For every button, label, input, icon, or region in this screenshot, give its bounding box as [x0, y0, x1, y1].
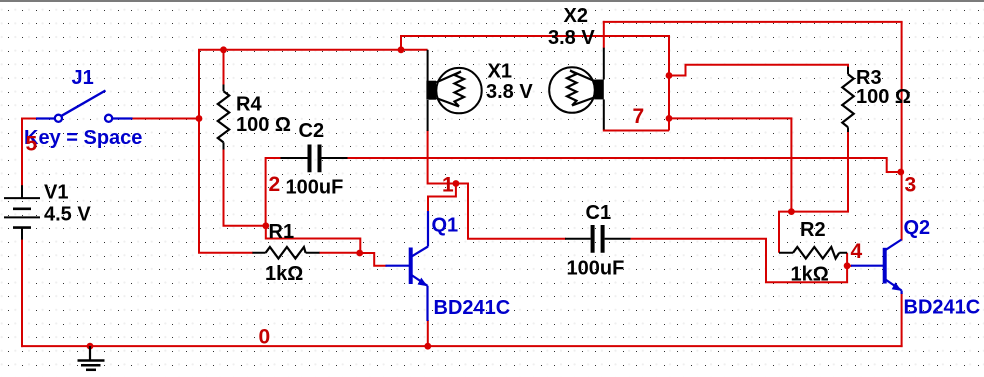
- transistor Q2 bar: [883, 248, 887, 284]
- svg-text:0: 0: [259, 326, 271, 349]
- wire X2 top line to right vertical: [603, 21, 903, 23]
- battery V1 long plate 1: [4, 197, 40, 199]
- svg-text:100uF: 100uF: [567, 258, 625, 280]
- resistor R4 zigzag: [218, 91, 229, 142]
- resistor R3 zigzag: [842, 74, 853, 127]
- junction dot node 2: [262, 222, 269, 229]
- wire C1 right to node4 loop: [631, 239, 848, 282]
- svg-text:7: 7: [633, 105, 645, 128]
- battery V1 top pin stub: [21, 185, 23, 198]
- junction dot node 7 branch: [666, 115, 673, 122]
- lamp X2 bottom pin: [603, 99, 605, 129]
- svg-text:J1: J1: [72, 67, 94, 89]
- wire node2 down-right to Q1 base dot: [266, 225, 361, 254]
- svg-text:X2: X2: [564, 5, 588, 27]
- svg-text:3.8 V: 3.8 V: [486, 81, 533, 103]
- ground symbol stem: [89, 346, 91, 360]
- wire X2 bottom segment: [604, 130, 669, 132]
- resistor R1 pins: [252, 252, 319, 254]
- junction dot node 3: [897, 169, 904, 176]
- wire top rail y=49.8: [198, 49, 428, 51]
- capacitor C2 plates: [310, 145, 320, 173]
- lamp X1 top pin: [427, 50, 429, 81]
- wire battery+ to switch J1 left: [21, 118, 37, 120]
- svg-text:1kΩ: 1kΩ: [791, 263, 829, 285]
- wire R4 top drop: [223, 51, 225, 86]
- wire X2 right loop vertical x=669: [668, 35, 670, 131]
- wire node7 to R2 left pin: [779, 212, 792, 253]
- wire node7 from X2 loop to R2/R3: [669, 118, 791, 211]
- lamp X2 contact square: [594, 80, 604, 100]
- switch J1 left blue lead: [36, 117, 55, 119]
- wire battery left vertical top part: [21, 118, 23, 187]
- junction dot X2 branch on top rail: [398, 46, 405, 53]
- svg-text:100uF: 100uF: [286, 177, 344, 199]
- junction dot ground: [87, 343, 94, 350]
- transistor Q2 base lead: [851, 265, 884, 267]
- lamp X1 filament: [436, 72, 464, 107]
- wire R1 left line: [198, 252, 253, 254]
- svg-text:C2: C2: [299, 120, 325, 142]
- resistor R3 pins: [847, 67, 849, 132]
- svg-text:Q1: Q1: [432, 215, 459, 237]
- resistor R2 zigzag: [793, 247, 839, 259]
- junction dot node 4: [844, 262, 851, 269]
- svg-text:Q2: Q2: [904, 217, 931, 239]
- wire Q1 base jog: [359, 253, 387, 266]
- svg-text:V1: V1: [44, 182, 68, 204]
- battery V1 short plate 1: [13, 208, 31, 211]
- lamp X1 bottom pin: [427, 100, 429, 131]
- wire vertical riser x=199 up to top rail: [198, 50, 200, 118]
- wire X1 bottom to node 1: [428, 130, 468, 184]
- svg-text:100 Ω: 100 Ω: [856, 86, 911, 108]
- wire node1 to C1 left: [468, 183, 566, 239]
- svg-text:2: 2: [269, 173, 281, 196]
- transistor Q1 base lead: [386, 265, 411, 267]
- svg-text:4.5 V: 4.5 V: [44, 204, 91, 226]
- junction dot Q1 base / R1 right: [356, 250, 363, 257]
- svg-text:1: 1: [442, 174, 454, 197]
- junction dot R2 left / R3 bottom: [788, 208, 795, 215]
- svg-text:4: 4: [851, 240, 863, 263]
- wire bottom ground rail y=345.8: [21, 345, 903, 347]
- svg-text:1kΩ: 1kΩ: [265, 263, 303, 285]
- svg-text:R2: R2: [800, 219, 826, 241]
- wire node4 to Q2 base: [846, 265, 852, 267]
- resistor R2 pins: [779, 252, 847, 254]
- resistor R1 zigzag: [266, 247, 306, 259]
- capacitor C1 pins: [565, 238, 631, 240]
- capacitor C1 plates: [593, 225, 603, 253]
- ground symbol bar 3: [86, 369, 96, 372]
- wire switch J1 right to node junction: [132, 118, 201, 120]
- battery V1 long plate 2: [4, 216, 40, 218]
- wire R1 right to Q1 base dot: [319, 252, 360, 254]
- lamp X1 contact square: [426, 81, 436, 100]
- wire Q2 emitter down to bottom rail: [901, 293, 903, 347]
- battery V1 bottom pin stub: [21, 228, 23, 240]
- transistor Q2 collector lead: [885, 240, 902, 251]
- svg-text:BD241C: BD241C: [434, 297, 511, 319]
- junction dot Q1 emitter on bottom rail: [424, 343, 431, 350]
- wire node1 jog down to Q1 collector: [428, 184, 456, 213]
- transistor Q1 bar: [409, 248, 413, 285]
- switch J1 right blue lead: [112, 117, 133, 119]
- ground symbol bar 2: [81, 364, 101, 367]
- svg-text:X1: X1: [488, 61, 512, 83]
- svg-text:BD241C: BD241C: [904, 297, 981, 319]
- lamp X2 filament: [567, 71, 596, 106]
- svg-text:3: 3: [905, 174, 917, 197]
- wire right vertical x=901.6 top to Q2 collector: [901, 22, 903, 241]
- junction dot R3 top branch: [666, 72, 673, 79]
- switch J1 lever: [62, 91, 106, 116]
- svg-text:C1: C1: [586, 202, 612, 224]
- battery V1 short plate 2: [13, 226, 31, 229]
- wire R4 bottom to node2: [224, 149, 266, 226]
- wire vertical x=199 down to R1 line: [198, 119, 200, 253]
- svg-text:R1: R1: [269, 221, 295, 243]
- ground symbol bar 1: [78, 359, 105, 362]
- transistor Q1 collector lead: [411, 211, 428, 257]
- wire R3 bottom down to node7 rail: [790, 131, 848, 212]
- lamp X1 bulb circle: [436, 68, 481, 113]
- lamp X2 bulb circle: [549, 67, 595, 113]
- junction dot J1 right: [196, 115, 203, 122]
- svg-text:5: 5: [26, 133, 38, 156]
- svg-text:3.8 V: 3.8 V: [548, 27, 595, 49]
- transistor Q2 emitter lead: [885, 279, 902, 294]
- transistor Q1 emitter lead: [411, 275, 428, 322]
- wire X2 top pin riser: [603, 21, 605, 48]
- wire X2 bottom pin stub red: [603, 129, 605, 132]
- transistor Q2 emitter arrow: [892, 282, 902, 291]
- wire branch up from top rail to X2 feed: [401, 36, 669, 49]
- capacitor C2 pins: [281, 157, 348, 159]
- top window bar: [0, 0, 984, 2]
- resistor R4 pins: [223, 85, 225, 150]
- lamp X2 top pin: [603, 48, 605, 80]
- svg-text:Key = Space: Key = Space: [24, 127, 142, 149]
- wire C2 right long line to node3: [348, 158, 902, 172]
- junction dot R4 top rail: [220, 46, 227, 53]
- wire Q1 emitter red segment: [427, 320, 429, 346]
- svg-text:100 Ω: 100 Ω: [236, 114, 291, 136]
- svg-text:R4: R4: [236, 94, 262, 116]
- wire R3 top connection with jog: [668, 65, 849, 76]
- wire C2 left to node2: [266, 158, 281, 227]
- switch J1 right terminal circle: [105, 115, 112, 122]
- transistor Q1 emitter arrow: [418, 278, 428, 287]
- wire R2 right stub down to node4: [846, 253, 848, 266]
- junction dot node 1: [453, 180, 460, 187]
- wire battery left vertical bottom part: [21, 239, 23, 348]
- switch J1 left terminal circle: [55, 115, 62, 122]
